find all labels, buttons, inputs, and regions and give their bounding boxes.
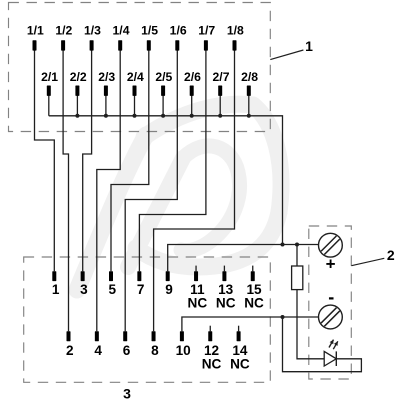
svg-text:9: 9 [165, 282, 173, 297]
svg-text:3: 3 [123, 385, 131, 401]
svg-text:10: 10 [176, 343, 191, 358]
svg-text:6: 6 [123, 343, 131, 358]
svg-text:7: 7 [137, 282, 145, 297]
svg-text:5: 5 [109, 282, 117, 297]
svg-text:1/2: 1/2 [55, 24, 72, 38]
svg-text:2/8: 2/8 [241, 70, 258, 84]
svg-text:NC: NC [216, 295, 236, 310]
svg-text:2: 2 [387, 247, 395, 263]
svg-text:NC: NC [244, 295, 264, 310]
svg-text:1: 1 [305, 38, 313, 54]
svg-text:2/3: 2/3 [98, 70, 115, 84]
svg-text:1/3: 1/3 [84, 24, 101, 38]
svg-text:2/4: 2/4 [127, 70, 144, 84]
svg-text:8: 8 [151, 343, 159, 358]
svg-text:NC: NC [188, 295, 208, 310]
svg-text:2/6: 2/6 [184, 70, 201, 84]
svg-text:-: - [328, 287, 334, 307]
svg-text:1/5: 1/5 [141, 24, 158, 38]
svg-text:1/4: 1/4 [113, 24, 130, 38]
svg-text:1/1: 1/1 [27, 24, 44, 38]
svg-text:2/1: 2/1 [41, 70, 58, 84]
svg-text:+: + [326, 255, 336, 274]
svg-text:NC: NC [230, 356, 250, 371]
svg-text:1: 1 [52, 282, 60, 297]
svg-text:4: 4 [94, 343, 102, 358]
svg-text:NC: NC [202, 356, 222, 371]
svg-text:2/5: 2/5 [155, 70, 172, 84]
svg-text:1/6: 1/6 [170, 24, 187, 38]
svg-text:1/8: 1/8 [227, 24, 244, 38]
svg-text:1/7: 1/7 [198, 24, 215, 38]
svg-text:2: 2 [66, 343, 74, 358]
svg-text:2/2: 2/2 [70, 70, 87, 84]
svg-text:3: 3 [80, 282, 88, 297]
svg-text:2/7: 2/7 [213, 70, 230, 84]
